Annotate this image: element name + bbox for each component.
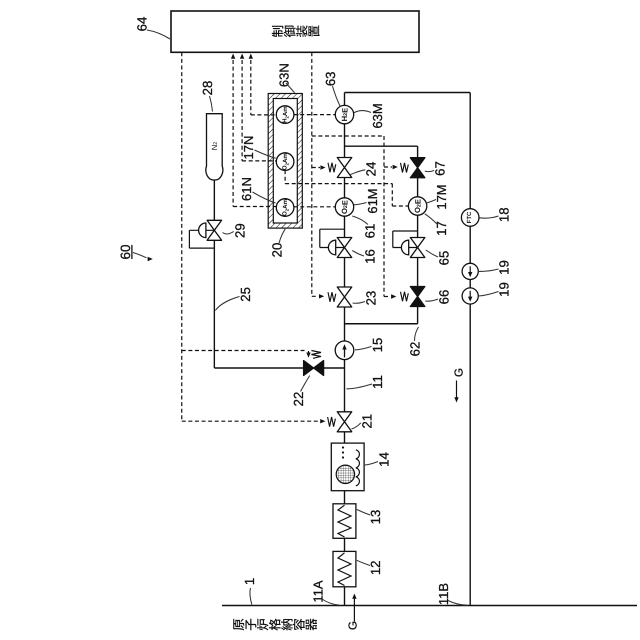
svg-text:67: 67 xyxy=(433,161,448,176)
flow arrow G right xyxy=(456,381,458,400)
leader 67 xyxy=(425,171,434,172)
coil of 14 xyxy=(356,450,360,486)
pipe bypass bottom xyxy=(345,323,418,325)
leader 20 xyxy=(279,229,285,243)
svg-text:29: 29 xyxy=(233,223,248,238)
valve 65 with diaphragm xyxy=(393,230,418,232)
svg-text:17M: 17M xyxy=(434,184,449,209)
containment vessel wall line 1 xyxy=(222,605,637,607)
flow device 19 lower xyxy=(462,288,478,304)
leader 15 xyxy=(355,347,372,350)
leader 66 xyxy=(425,299,438,301)
leader 63M xyxy=(354,111,371,113)
signal line sensor 61N to control box xyxy=(232,60,234,207)
svg-text:62: 62 xyxy=(408,342,423,357)
heat exchanger 13 xyxy=(333,504,356,539)
leader 62 xyxy=(415,327,419,341)
svg-text:23: 23 xyxy=(364,291,379,306)
pipe right vertical line xyxy=(469,93,471,209)
svg-text:28: 28 xyxy=(200,81,215,96)
svg-text:20: 20 xyxy=(270,243,285,258)
valve 16 with diaphragm xyxy=(320,228,345,230)
analyzer O2Am mid 17N xyxy=(276,153,294,171)
signal arrow to valve 67 xyxy=(384,166,392,168)
leader 14 xyxy=(365,462,378,466)
svg-text:64: 64 xyxy=(135,17,150,32)
pipe 63M top horizontal xyxy=(345,92,471,94)
leader 11B xyxy=(448,601,468,606)
leader 29 xyxy=(223,232,234,235)
valve 67 black xyxy=(401,163,409,173)
svg-text:24: 24 xyxy=(364,162,379,177)
svg-text:11B: 11B xyxy=(436,583,451,605)
leader 18 xyxy=(480,216,499,218)
leader 17 xyxy=(425,214,437,224)
svg-text:60: 60 xyxy=(118,244,133,259)
pipe 11 main vertical line xyxy=(344,93,346,106)
signal branch to valve 22 xyxy=(182,350,306,352)
svg-text:14: 14 xyxy=(376,452,391,467)
svg-text:21: 21 xyxy=(360,414,375,429)
signal arrow to valve 66 xyxy=(384,296,391,298)
pipe N2 to valve 29 xyxy=(213,180,215,220)
signal H2Am to H2E xyxy=(294,114,336,116)
leader 61M xyxy=(354,203,367,205)
leader 64 xyxy=(147,30,170,39)
valve 66 black xyxy=(401,292,409,302)
leader 21 xyxy=(352,423,361,429)
label 原子炉格納容器 xyxy=(233,619,244,631)
leader 1 xyxy=(250,588,252,605)
mesh circle of 14 xyxy=(336,465,354,483)
svg-text:66: 66 xyxy=(437,290,452,305)
signal line control box to valves 23 24 xyxy=(311,52,313,296)
svg-text:65: 65 xyxy=(437,251,452,266)
leader 13 xyxy=(357,510,370,516)
svg-text:15: 15 xyxy=(370,338,385,353)
leader 61 xyxy=(352,216,368,225)
signal O2Am to O2E left xyxy=(294,206,336,208)
svg-text:G: G xyxy=(348,621,360,630)
svg-text:H2Am: H2Am xyxy=(282,106,289,123)
valve 24 xyxy=(328,163,336,173)
valve 23 xyxy=(328,292,336,302)
pipe 25 vertical xyxy=(213,240,215,368)
leader 17N xyxy=(255,150,276,158)
signal branch to valves 66 67 xyxy=(312,135,384,137)
svg-text:G: G xyxy=(454,368,466,377)
leader 25 xyxy=(215,297,239,311)
svg-text:63N: 63N xyxy=(276,63,291,87)
signal line from control box to valves 21 22 xyxy=(181,52,183,421)
svg-text:63: 63 xyxy=(323,71,338,86)
svg-text:O2Am: O2Am xyxy=(282,153,289,171)
svg-text:FTC: FTC xyxy=(466,211,473,223)
flowmeter FTC 18 xyxy=(461,209,479,227)
leader 11A xyxy=(322,599,339,605)
svg-text:1: 1 xyxy=(242,578,257,585)
pump 15 xyxy=(335,341,354,360)
leader 65 xyxy=(426,250,438,257)
leader 63N xyxy=(286,83,295,93)
svg-text:17N: 17N xyxy=(241,136,256,160)
leader 23 xyxy=(353,302,365,304)
analyzer O2Am bottom 61N xyxy=(276,199,294,217)
oxygen sensor O2E 17 xyxy=(408,197,426,215)
svg-text:61N: 61N xyxy=(239,177,254,201)
control device box 64 xyxy=(171,11,419,52)
analyzer rack 20 hatched box xyxy=(268,94,302,229)
control box label 制御装置 xyxy=(272,26,284,37)
svg-text:19: 19 xyxy=(497,260,512,275)
pipe right column segments xyxy=(417,178,419,198)
signal arrow to valve 23 xyxy=(312,295,319,297)
heat exchanger 12 xyxy=(333,551,356,586)
leader 22 xyxy=(301,376,310,392)
signal line sensor 17N to control box xyxy=(241,60,243,161)
svg-text:61M: 61M xyxy=(365,188,380,213)
pipe branch top to right column xyxy=(345,145,418,147)
N2 gas cylinder 28 xyxy=(206,114,223,180)
leader 12 xyxy=(357,560,370,565)
svg-text:13: 13 xyxy=(368,510,383,525)
signal line sensor 63N to control box xyxy=(250,60,252,115)
signal branch to valve 21 xyxy=(182,420,320,422)
svg-text:16: 16 xyxy=(363,249,378,264)
dots of 14 xyxy=(342,446,344,448)
hydrogen sensor H2E 63 xyxy=(335,105,353,123)
leader 19 upper xyxy=(479,269,499,271)
leader 28 xyxy=(210,96,213,112)
valve 29 with diaphragm xyxy=(189,229,214,231)
svg-text:11: 11 xyxy=(370,375,385,389)
leader 61N xyxy=(253,192,276,203)
leader 17M xyxy=(426,200,436,204)
svg-text:25: 25 xyxy=(238,287,253,302)
svg-text:O2Am: O2Am xyxy=(282,198,289,216)
valve 21 xyxy=(328,417,336,427)
signal arrow to valve 24 xyxy=(312,167,320,169)
svg-text:61: 61 xyxy=(363,224,378,239)
leader 19 lower xyxy=(479,292,499,297)
leader 63 xyxy=(333,86,341,107)
leader 24 xyxy=(351,170,366,175)
signal O2Am mid to O2E right xyxy=(284,170,286,184)
analyzer H2Am 63N xyxy=(276,106,294,124)
leader 16 xyxy=(352,251,364,257)
flow device 19 upper xyxy=(462,263,478,279)
svg-text:19: 19 xyxy=(497,282,512,297)
flow arrow G bottom xyxy=(353,598,355,622)
pipe 22 horizontal xyxy=(214,367,303,369)
valve 22 black xyxy=(311,351,321,359)
svg-text:18: 18 xyxy=(497,207,512,222)
blower/heater unit 14 xyxy=(331,443,364,491)
svg-text:12: 12 xyxy=(368,560,383,575)
svg-text:63M: 63M xyxy=(370,103,385,128)
oxygen sensor O2E 61 xyxy=(335,198,353,216)
svg-text:22: 22 xyxy=(291,392,306,407)
leader 11 xyxy=(347,384,373,389)
